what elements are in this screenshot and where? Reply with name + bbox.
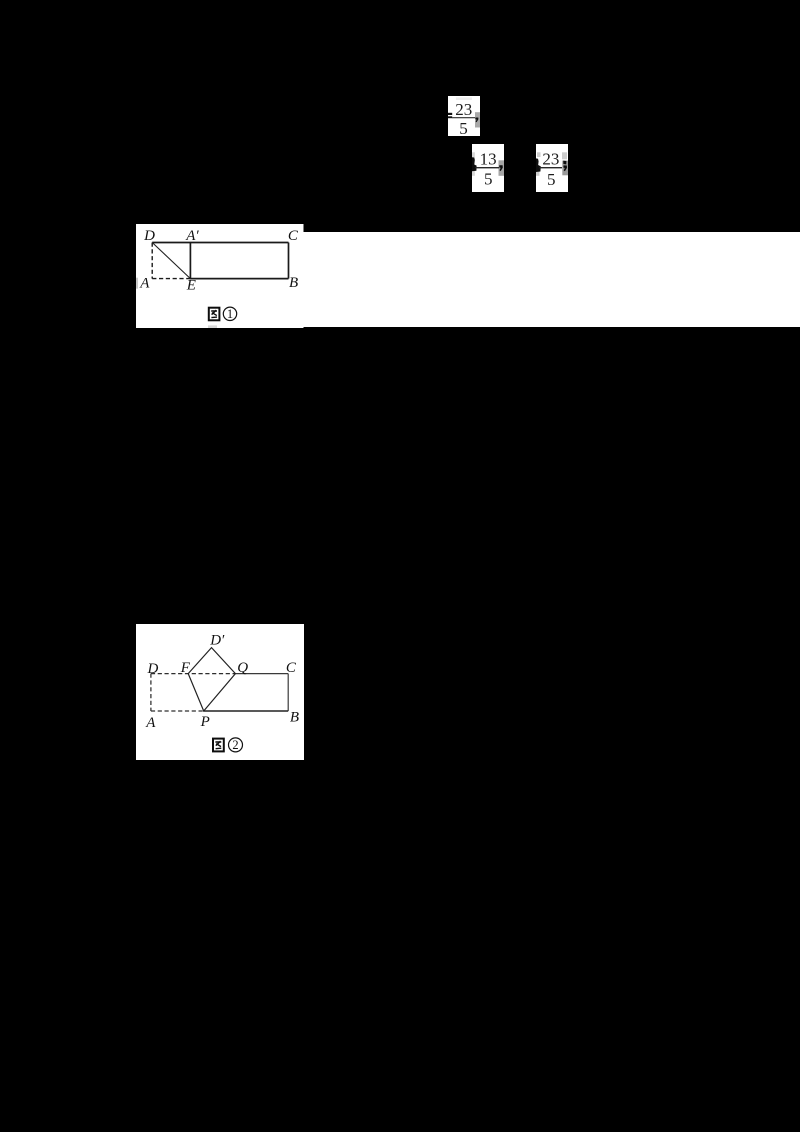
fraction bar	[475, 167, 499, 168]
caption circled 1	[223, 307, 236, 321]
comma	[475, 118, 478, 123]
fraction bar	[452, 117, 475, 118]
svg-text:23: 23	[542, 150, 559, 169]
svg-text:B: B	[289, 709, 298, 725]
svg-text:5: 5	[547, 170, 556, 189]
svg-text:D′: D′	[209, 632, 225, 648]
svg-text:A′: A′	[185, 228, 199, 244]
line C-B	[287, 673, 289, 710]
svg-text:23: 23	[455, 100, 472, 119]
dashed D-A	[149, 673, 151, 710]
line D-C (top)	[152, 241, 288, 243]
svg-text:P: P	[199, 713, 209, 729]
figure 1 image	[136, 224, 304, 328]
fraction image =23/5,	[448, 96, 480, 136]
svg-text:E: E	[186, 277, 196, 293]
fraction bar	[539, 167, 562, 168]
dashed D-A	[151, 242, 153, 278]
svg-text:C: C	[285, 660, 296, 676]
svg-text:5: 5	[484, 170, 493, 189]
kite F-D'-Q-P	[188, 647, 235, 710]
gray artifacts	[472, 152, 475, 176]
fraction image 13/5	[472, 144, 504, 192]
comma right	[499, 165, 503, 171]
clipped glyph right	[563, 161, 566, 165]
line P-B	[203, 710, 287, 712]
gray square artifact	[475, 112, 480, 127]
gray smudge below caption	[208, 325, 217, 328]
svg-text:F: F	[179, 660, 190, 676]
diagonal D-E	[152, 242, 190, 278]
gray artifacts	[537, 152, 541, 157]
svg-text:D: D	[146, 661, 158, 677]
svg-text:B: B	[289, 275, 298, 291]
dashed D-Q	[150, 672, 234, 674]
comma right	[563, 165, 567, 171]
clipped equals sign	[448, 113, 452, 115]
dashed A-E	[152, 277, 190, 279]
caption glyph 图	[213, 738, 224, 751]
svg-text:C: C	[288, 228, 299, 244]
line Q-C	[235, 672, 288, 674]
svg-text:Q: Q	[237, 660, 248, 676]
gray sliver left edge	[136, 277, 138, 288]
svg-text:5: 5	[459, 119, 468, 136]
svg-text:2: 2	[232, 738, 238, 752]
caption circled 2	[228, 738, 242, 752]
fraction image 23/5 (second)	[536, 144, 568, 192]
clipped glyph left	[536, 158, 541, 172]
svg-text:1: 1	[227, 307, 233, 321]
caption glyph 图	[209, 307, 220, 320]
white highlight band to right of figure 1	[302, 232, 800, 328]
svg-text:D: D	[143, 228, 155, 244]
rectangle A'-E-B-C	[189, 242, 191, 278]
svg-text:A: A	[139, 275, 150, 291]
faint top strip	[456, 97, 472, 100]
clipped glyph left	[472, 157, 477, 171]
dashed A-P	[150, 710, 203, 712]
svg-text:A: A	[145, 714, 156, 730]
svg-text:13: 13	[480, 150, 497, 169]
figure 2 image	[136, 624, 305, 760]
